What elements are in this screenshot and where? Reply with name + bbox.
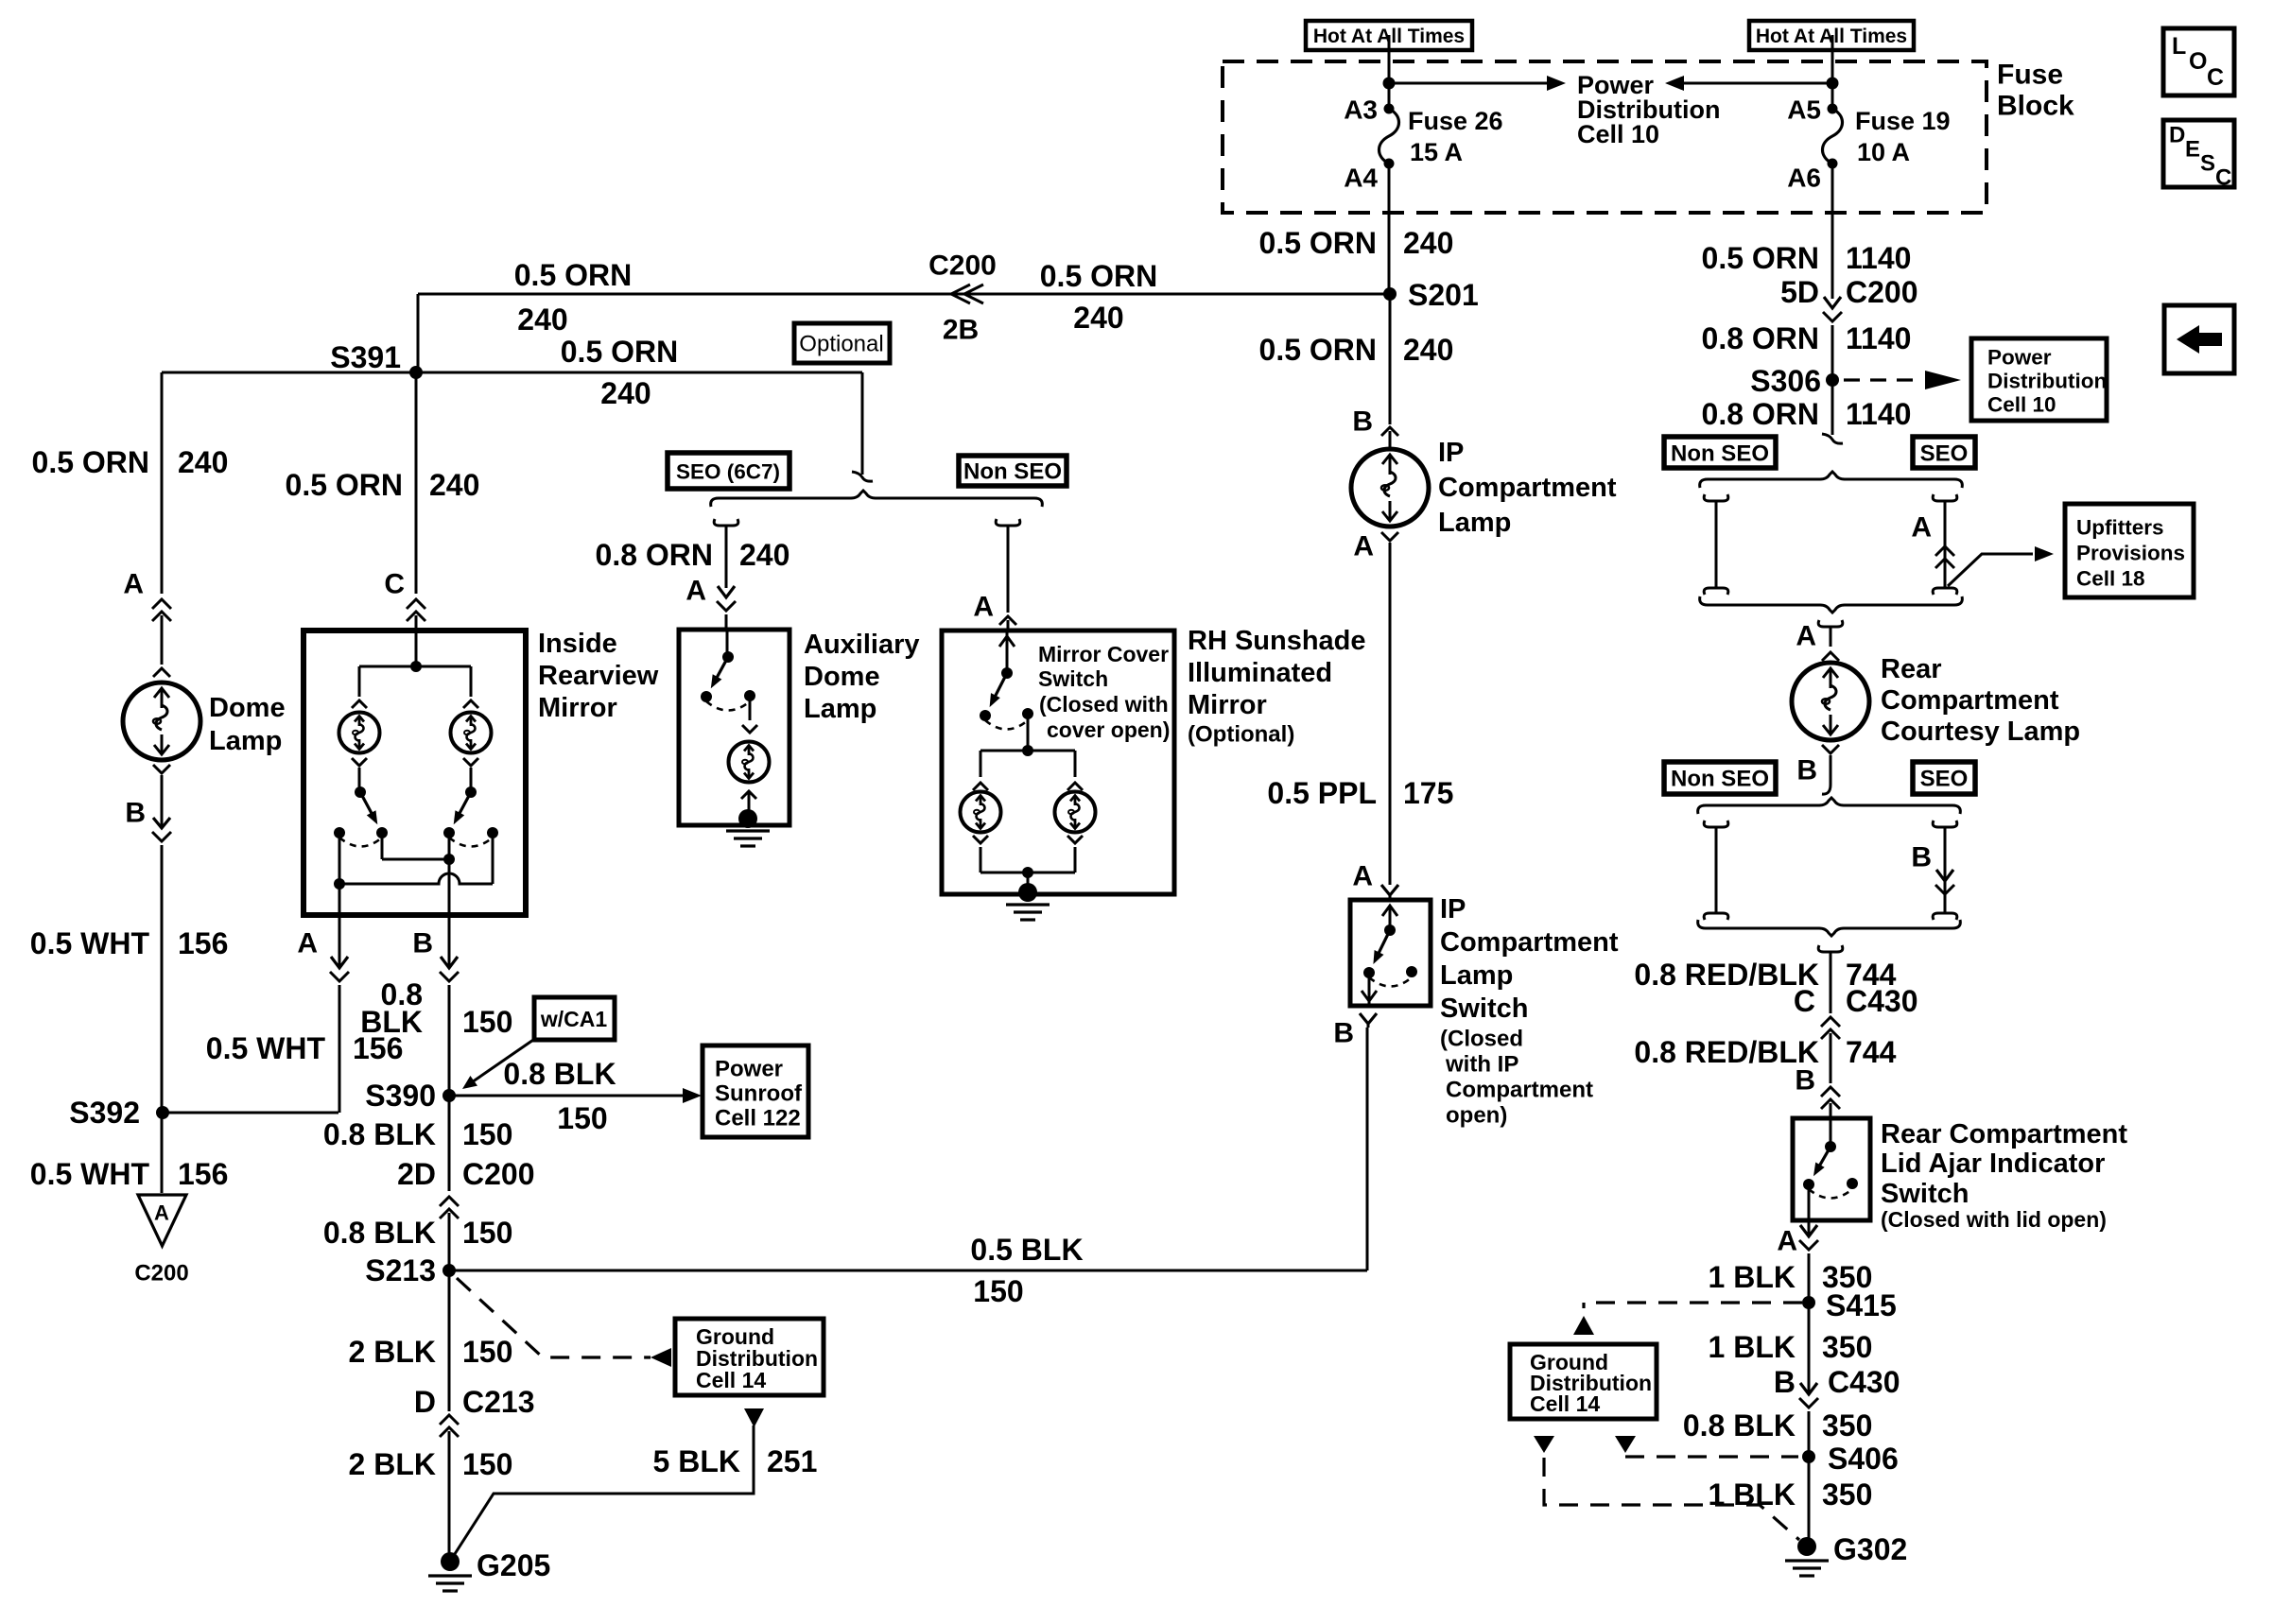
svg-text:0.8 BLK: 0.8 BLK bbox=[323, 1216, 436, 1250]
rear lid switch label bbox=[1881, 1119, 2127, 1232]
rear lid switch arm bbox=[1813, 1147, 1831, 1176]
svg-text:C200: C200 bbox=[134, 1261, 188, 1287]
dome lamp terminal B bbox=[125, 765, 170, 829]
svg-text:open): open) bbox=[1446, 1103, 1507, 1129]
dashed link S213 to ground distribution bbox=[457, 1278, 671, 1367]
svg-text:w/CA1: w/CA1 bbox=[540, 1007, 608, 1031]
rear courtesy lamp terminal A bbox=[1796, 620, 1842, 661]
wire 0.5 ORN 1140 from fuse 19 bbox=[1702, 164, 1912, 299]
svg-text:150: 150 bbox=[462, 1117, 512, 1151]
fuse block label bbox=[1997, 60, 2074, 122]
svg-text:B: B bbox=[1796, 755, 1817, 786]
svg-text:175: 175 bbox=[1403, 776, 1453, 810]
aux dome lamp bulb leg bbox=[742, 696, 757, 733]
mirror right switch arm bbox=[454, 792, 471, 824]
IP lamp switch feed arrow bbox=[1382, 906, 1397, 936]
wire 2 BLK 150 below S213 bbox=[349, 1274, 513, 1411]
svg-text:0.8 ORN: 0.8 ORN bbox=[1702, 397, 1819, 431]
svg-text:A: A bbox=[1352, 861, 1373, 892]
aux dome lamp bulb lower terminal bbox=[741, 791, 756, 817]
Power Sunroof Cell 122 box bbox=[703, 1045, 808, 1137]
svg-text:IP: IP bbox=[1438, 438, 1464, 468]
svg-text:0.5 WHT: 0.5 WHT bbox=[206, 1031, 326, 1065]
svg-text:Rear Compartment: Rear Compartment bbox=[1881, 1119, 2127, 1149]
rear lid switch terminal A bbox=[1777, 1220, 1818, 1299]
sunshade bulbs feed bus bbox=[980, 714, 1075, 756]
sunshade left bulb lower leg bbox=[973, 836, 988, 872]
svg-text:S392: S392 bbox=[69, 1096, 140, 1130]
connector C200 terminal A (triangle) bbox=[134, 1195, 188, 1287]
svg-text:0.5 ORN: 0.5 ORN bbox=[561, 335, 678, 369]
splice S391 bbox=[330, 340, 423, 379]
svg-text:A: A bbox=[685, 576, 706, 607]
mirror cover switch dashed throw bbox=[985, 720, 1028, 730]
svg-text:Courtesy Lamp: Courtesy Lamp bbox=[1881, 717, 2080, 747]
svg-text:Fuse 19: Fuse 19 bbox=[1855, 107, 1951, 135]
splice S213 bbox=[365, 1253, 456, 1287]
svg-text:SEO: SEO bbox=[1920, 441, 1969, 467]
svg-text:Mirror: Mirror bbox=[538, 693, 617, 723]
in-line connector on 0.5 WHT (below dome lamp) bbox=[152, 775, 171, 1111]
fuse 26 15A bbox=[1379, 107, 1503, 166]
mirror terminal B (below box) bbox=[412, 918, 459, 1092]
label 0.5 ORN 240 (right of C200) bbox=[1040, 259, 1157, 335]
rear courtesy lamp terminal B bbox=[1796, 745, 1839, 794]
svg-text:240: 240 bbox=[600, 376, 651, 410]
svg-text:0.5 ORN: 0.5 ORN bbox=[1259, 226, 1377, 260]
svg-text:C430: C430 bbox=[1846, 984, 1918, 1018]
Non SEO option wire to sunshade mirror bbox=[996, 519, 1020, 613]
auxiliary dome lamp box bbox=[679, 630, 789, 825]
aux dome lamp switch contacts bbox=[701, 690, 755, 702]
wire optional branch down from S391 run bbox=[852, 372, 873, 481]
wire 0.5 ORN 240 from fuse 26 to S201 bbox=[1259, 164, 1454, 294]
label 0.5 WHT 156 (S392 to mirror A) bbox=[206, 1031, 404, 1065]
svg-text:S: S bbox=[2200, 151, 2215, 177]
IP lamp switch dashed throw bbox=[1369, 977, 1412, 987]
svg-text:0.5 ORN: 0.5 ORN bbox=[1702, 241, 1819, 275]
connector C200 2D bbox=[397, 1157, 534, 1267]
sunshade ground bus bbox=[980, 867, 1075, 890]
RH sunshade illuminated mirror box bbox=[942, 631, 1174, 894]
svg-text:2D: 2D bbox=[397, 1157, 436, 1191]
svg-text:Upfitters: Upfitters bbox=[2076, 516, 2164, 540]
rear lid switch terminal B bbox=[1795, 1065, 1840, 1119]
DESC legend box bbox=[2163, 120, 2234, 191]
LOC legend box bbox=[2163, 28, 2234, 95]
wire 0.8 BLK 150 from S390 to power sunroof bbox=[449, 1057, 702, 1135]
svg-text:150: 150 bbox=[462, 1447, 512, 1481]
splice S406 bbox=[1802, 1442, 1899, 1476]
wire 0.8 BLK 150 below S390 bbox=[323, 1096, 513, 1191]
svg-text:0.5 BLK: 0.5 BLK bbox=[970, 1233, 1083, 1267]
wire 0.5 ORN 240 from S201 to IP compartment lamp bbox=[1259, 294, 1454, 424]
fuse F26 terminal A3 bbox=[1344, 95, 1394, 125]
rear lid switch feed bbox=[1825, 1118, 1836, 1152]
IP compartment lamp switch box bbox=[1350, 900, 1431, 1006]
svg-text:S391: S391 bbox=[330, 340, 401, 374]
Upfitters Provisions Cell 18 box bbox=[2065, 504, 2194, 597]
svg-text:Compartment: Compartment bbox=[1440, 927, 1619, 958]
IP lamp switch condition label bbox=[1440, 1027, 1593, 1129]
svg-text:1 BLK: 1 BLK bbox=[1709, 1260, 1796, 1294]
mirror internal wire left-inner contact to node bbox=[382, 833, 455, 865]
svg-text:2 BLK: 2 BLK bbox=[349, 1447, 436, 1481]
svg-text:RH Sunshade: RH Sunshade bbox=[1188, 626, 1366, 656]
option brace (SEO 6C7 / Non SEO) bbox=[711, 491, 1043, 507]
svg-text:240: 240 bbox=[1403, 226, 1453, 260]
inside rearview mirror label bbox=[538, 629, 659, 723]
option brace lower (open) bbox=[1698, 798, 1961, 814]
mirror switch dashed throw (right) bbox=[449, 838, 493, 847]
Hot At All Times box (left) bbox=[1306, 21, 1472, 50]
svg-text:A5: A5 bbox=[1787, 95, 1821, 125]
aux dome lamp switch arm bbox=[711, 657, 728, 688]
svg-text:S390: S390 bbox=[365, 1079, 436, 1113]
node on fuse feed (left) bbox=[1383, 78, 1396, 90]
svg-text:0.5 ORN: 0.5 ORN bbox=[32, 445, 149, 479]
svg-text:0.8 RED/BLK: 0.8 RED/BLK bbox=[1634, 958, 1819, 992]
Non SEO flag box (center) bbox=[959, 456, 1067, 486]
dashed link S415 to ground distribution bbox=[1573, 1303, 1802, 1335]
svg-text:240: 240 bbox=[178, 445, 228, 479]
svg-text:1140: 1140 bbox=[1846, 397, 1911, 431]
IP lamp switch terminal A bbox=[1352, 861, 1398, 901]
arrow to Power Distribution Cell 10 (from left feed) bbox=[1389, 76, 1566, 91]
svg-text:Rearview: Rearview bbox=[538, 661, 659, 691]
svg-text:A: A bbox=[154, 1201, 169, 1225]
svg-text:0.8 ORN: 0.8 ORN bbox=[1702, 321, 1819, 355]
svg-text:Switch: Switch bbox=[1440, 993, 1528, 1024]
wire 1 BLK 350 S406 to G302 bbox=[1709, 1460, 1873, 1539]
svg-text:C: C bbox=[2215, 165, 2231, 191]
option brace upper (open) bbox=[1700, 472, 1963, 488]
wire 0.5 ORN 240 from S391 to inside rearview mirror bbox=[286, 372, 480, 594]
connector C200 5D bbox=[1780, 275, 1917, 376]
arrow to Power Distribution Cell 10 (from right feed) bbox=[1665, 76, 1832, 91]
IP compartment lamp bbox=[1351, 438, 1617, 538]
svg-text:E: E bbox=[2185, 137, 2200, 163]
RH sunshade mirror label bbox=[1188, 626, 1366, 748]
SEO (6C7) flag box bbox=[668, 453, 789, 489]
svg-text:A: A bbox=[297, 928, 318, 959]
wire 0.5 ORN 240 from S391 left to dome lamp branch bbox=[162, 371, 416, 374]
Power Distribution Cell 10 box bbox=[1971, 338, 2107, 421]
wire 0.5 ORN 240 from S391 right to Optional branch bbox=[416, 335, 862, 410]
mirror internal feed bus bbox=[359, 631, 471, 672]
sunshade left bulb leg bbox=[973, 751, 988, 790]
Hot At All Times box (right) bbox=[1749, 21, 1914, 50]
svg-text:156: 156 bbox=[178, 1157, 228, 1191]
wire 0.5 ORN 240 dome lamp feed bbox=[32, 372, 229, 594]
svg-text:350: 350 bbox=[1822, 1330, 1872, 1364]
svg-text:0.8 BLK: 0.8 BLK bbox=[1683, 1408, 1796, 1443]
mirror right switch pivot bbox=[465, 768, 477, 798]
svg-text:Mirror Cover: Mirror Cover bbox=[1038, 642, 1169, 666]
svg-text:0.5 PPL: 0.5 PPL bbox=[1267, 776, 1377, 810]
svg-text:S201: S201 bbox=[1408, 278, 1479, 312]
svg-text:(Closed: (Closed bbox=[1440, 1027, 1523, 1052]
svg-text:0.8 RED/BLK: 0.8 RED/BLK bbox=[1634, 1035, 1819, 1069]
svg-text:240: 240 bbox=[1403, 333, 1453, 367]
svg-text:240: 240 bbox=[517, 302, 567, 337]
svg-text:IP: IP bbox=[1440, 894, 1466, 924]
svg-text:A: A bbox=[1353, 531, 1374, 562]
aux dome lamp switch feed bbox=[722, 630, 734, 663]
mirror cover switch label bbox=[1038, 642, 1170, 742]
svg-text:Non SEO: Non SEO bbox=[1671, 767, 1769, 792]
svg-text:1140: 1140 bbox=[1846, 321, 1911, 355]
svg-text:Auxiliary: Auxiliary bbox=[804, 630, 920, 660]
label 0.5 PPL 175 bbox=[1267, 776, 1453, 810]
mirror cover switch contacts bbox=[980, 708, 1033, 721]
svg-text:C: C bbox=[1794, 984, 1815, 1018]
svg-text:150: 150 bbox=[557, 1101, 607, 1135]
rear lid switch output leg bbox=[1808, 1184, 1811, 1220]
IP compartment lamp terminal B bbox=[1352, 406, 1398, 451]
svg-text:S406: S406 bbox=[1828, 1442, 1899, 1476]
svg-text:Cell 18: Cell 18 bbox=[2076, 567, 2145, 591]
Ground Distribution Cell 14 box (left) bbox=[675, 1319, 824, 1395]
svg-text:0.5 ORN: 0.5 ORN bbox=[286, 468, 403, 502]
svg-text:Lamp: Lamp bbox=[1438, 508, 1511, 538]
svg-text:251: 251 bbox=[767, 1444, 817, 1478]
aux dome lamp switch dashed throw bbox=[706, 701, 750, 711]
svg-text:Mirror: Mirror bbox=[1188, 690, 1267, 720]
wire 0.8 RED/BLK 744 to connector C430 bbox=[1634, 945, 1896, 1013]
Non SEO flag box (upper right) bbox=[1664, 437, 1776, 468]
svg-text:C: C bbox=[384, 569, 405, 600]
svg-text:0.5 ORN: 0.5 ORN bbox=[1259, 333, 1377, 367]
sunshade right bulb lower leg bbox=[1067, 836, 1083, 872]
svg-text:0.8 BLK: 0.8 BLK bbox=[503, 1057, 616, 1091]
svg-text:Cell 122: Cell 122 bbox=[715, 1106, 801, 1132]
sunshade right bulb leg bbox=[1067, 751, 1083, 790]
SEO option wire with terminal A bbox=[1911, 494, 1956, 595]
svg-text:S213: S213 bbox=[365, 1253, 436, 1287]
svg-text:150: 150 bbox=[462, 1335, 512, 1369]
svg-text:B: B bbox=[1911, 842, 1932, 873]
svg-text:2 BLK: 2 BLK bbox=[349, 1335, 436, 1369]
fuse F26 terminal A4 bbox=[1344, 159, 1394, 193]
mirror terminal A (below box) bbox=[297, 918, 349, 1113]
svg-text:Fuse 26: Fuse 26 bbox=[1408, 107, 1503, 135]
Non SEO flag box (lower right) bbox=[1664, 762, 1776, 794]
label 0.8 BLK 350 (above S406) bbox=[1683, 1408, 1873, 1443]
SEO flag box (upper right) bbox=[1913, 437, 1975, 468]
label 2 BLK 150 (above G205) bbox=[349, 1447, 513, 1481]
svg-text:5D: 5D bbox=[1780, 275, 1819, 309]
wire 5 BLK 251 from G205 to ground distribution bbox=[453, 1408, 817, 1557]
connector C430 terminal C bbox=[1794, 984, 1918, 1083]
svg-text:240: 240 bbox=[1073, 301, 1123, 335]
svg-text:L: L bbox=[2172, 33, 2186, 60]
IP compartment lamp terminal A bbox=[1353, 531, 1398, 886]
svg-text:Compartment: Compartment bbox=[1446, 1078, 1593, 1103]
svg-text:Non SEO: Non SEO bbox=[1671, 441, 1769, 467]
svg-text:Cell 10: Cell 10 bbox=[1987, 393, 2056, 417]
mirror left switch pivot bbox=[355, 768, 366, 798]
mirror cover switch feed arrow bbox=[999, 631, 1015, 679]
svg-text:150: 150 bbox=[462, 1005, 512, 1039]
splice S415 bbox=[1802, 1288, 1897, 1322]
svg-text:Lamp: Lamp bbox=[804, 694, 876, 724]
ground G302 bbox=[1785, 1532, 1907, 1576]
option brace upper (close) bbox=[1700, 596, 1963, 613]
svg-text:C430: C430 bbox=[1828, 1365, 1900, 1399]
svg-text:BLK: BLK bbox=[360, 1005, 423, 1039]
svg-text:B: B bbox=[1333, 1018, 1354, 1049]
sunshade internal ground bbox=[1006, 883, 1050, 920]
connector C213 terminal D bbox=[414, 1385, 535, 1555]
label 0.8 RED/BLK 744 (below C430) bbox=[1634, 1035, 1896, 1069]
mirror internal wire to left bulb bbox=[358, 666, 361, 697]
option brace lower (close) bbox=[1698, 920, 1961, 936]
svg-text:Lid Ajar Indicator: Lid Ajar Indicator bbox=[1881, 1149, 2105, 1179]
wire corner down to S391 bbox=[417, 294, 420, 372]
svg-text:Dome: Dome bbox=[209, 693, 286, 723]
svg-text:(Closed with lid open): (Closed with lid open) bbox=[1881, 1207, 2107, 1232]
svg-text:0.5 WHT: 0.5 WHT bbox=[30, 926, 150, 960]
wire from right Hot At All Times into fuse block bbox=[1831, 35, 1834, 106]
mirror internal crossover wire with jump bbox=[334, 833, 493, 890]
svg-text:C200: C200 bbox=[1846, 275, 1918, 309]
svg-text:A: A bbox=[1911, 512, 1932, 544]
splice S390 bbox=[365, 1079, 456, 1113]
mirror right bulb bbox=[451, 700, 492, 766]
fuse F19 terminal A5 bbox=[1787, 95, 1837, 125]
mirror internal wire to right bulb bbox=[470, 666, 473, 697]
svg-text:150: 150 bbox=[462, 1216, 512, 1250]
arrow to Upfitters Provisions Cell 18 bbox=[1948, 546, 2054, 586]
svg-text:0.8 ORN: 0.8 ORN bbox=[596, 538, 713, 572]
Ground Distribution Cell 14 box (right) bbox=[1510, 1344, 1657, 1419]
mirror switch contacts bbox=[334, 827, 498, 838]
svg-text:Sunroof: Sunroof bbox=[715, 1081, 803, 1107]
svg-text:744: 744 bbox=[1846, 1035, 1897, 1069]
svg-text:S306: S306 bbox=[1750, 364, 1821, 398]
svg-text:with IP: with IP bbox=[1445, 1052, 1518, 1078]
sunshade mirror terminal A bbox=[973, 592, 1016, 631]
svg-text:Switch: Switch bbox=[1881, 1179, 1969, 1209]
svg-text:Block: Block bbox=[1997, 91, 2074, 122]
IP lamp switch output leg bbox=[1362, 973, 1377, 1004]
svg-text:B: B bbox=[1352, 406, 1373, 438]
Non SEO option bracket (blank) bbox=[1704, 494, 1728, 595]
fuse F19 terminal A6 bbox=[1787, 159, 1837, 193]
svg-text:G205: G205 bbox=[477, 1548, 550, 1582]
splice S201 bbox=[1383, 278, 1479, 312]
svg-text:350: 350 bbox=[1822, 1477, 1872, 1512]
sunshade right bulb bbox=[1055, 792, 1096, 833]
svg-text:Distribution: Distribution bbox=[1987, 370, 2107, 393]
fuse 19 10A bbox=[1823, 107, 1951, 166]
svg-text:B: B bbox=[412, 928, 433, 959]
svg-text:150: 150 bbox=[973, 1274, 1023, 1308]
back-arrow legend box bbox=[2164, 305, 2234, 373]
w/CA1 flag box bbox=[534, 997, 615, 1040]
svg-text:Optional: Optional bbox=[799, 332, 883, 357]
wire 0.5 BLK 150 from S213 to IP compartment lamp switch bbox=[449, 1028, 1367, 1308]
mirror internal wire right-inner contact down (B leg) bbox=[448, 833, 451, 915]
wire S392 to mirror terminal A leg bbox=[163, 1112, 338, 1114]
svg-text:A: A bbox=[1796, 621, 1816, 652]
svg-text:Power: Power bbox=[715, 1057, 783, 1082]
svg-text:Rear: Rear bbox=[1881, 654, 1942, 684]
svg-text:Power: Power bbox=[1987, 346, 2052, 370]
svg-text:Illuminated: Illuminated bbox=[1188, 658, 1332, 688]
svg-text:Switch: Switch bbox=[1038, 666, 1108, 691]
label 0.5 WHT 156 (above S392) bbox=[30, 926, 229, 960]
aux dome lamp internal ground bbox=[726, 809, 770, 846]
mirror left bulb bbox=[339, 700, 380, 766]
svg-text:0.5 ORN: 0.5 ORN bbox=[514, 258, 632, 292]
wire 0.5 WHT 156 below S392 to C200 bbox=[30, 1113, 229, 1193]
svg-text:(Optional): (Optional) bbox=[1188, 722, 1294, 748]
svg-text:A4: A4 bbox=[1344, 164, 1378, 193]
svg-text:A: A bbox=[1777, 1226, 1797, 1257]
svg-text:Compartment: Compartment bbox=[1881, 685, 2059, 716]
svg-text:5 BLK: 5 BLK bbox=[653, 1444, 740, 1478]
rear compartment courtesy lamp bbox=[1792, 654, 2080, 747]
svg-text:Non SEO: Non SEO bbox=[963, 459, 1062, 485]
svg-text:Compartment: Compartment bbox=[1438, 473, 1617, 503]
svg-text:A: A bbox=[973, 592, 994, 623]
svg-text:0.8 BLK: 0.8 BLK bbox=[323, 1117, 436, 1151]
wire 0.8 ORN 1140 below S306 bbox=[1702, 380, 1912, 443]
Non SEO option bracket lower (blank) bbox=[1704, 821, 1728, 920]
IP lamp switch arm bbox=[1373, 930, 1390, 964]
svg-text:1 BLK: 1 BLK bbox=[1709, 1330, 1796, 1364]
splice S392 bbox=[69, 1096, 169, 1130]
connector C200 2B (in-line chevrons) bbox=[928, 251, 997, 346]
ground distribution dashed leg to G302 bbox=[1534, 1436, 1799, 1540]
wire 1 BLK 350 S415 to C430 bbox=[1709, 1330, 1873, 1364]
rear compartment lid ajar indicator switch box bbox=[1793, 1118, 1870, 1220]
svg-text:10 A: 10 A bbox=[1857, 138, 1910, 166]
svg-text:B: B bbox=[1774, 1365, 1796, 1399]
svg-text:SEO: SEO bbox=[1920, 767, 1969, 792]
arrow from w/CA1 to S390 bbox=[462, 1038, 536, 1089]
wire 0.5 ORN 240 from S201 to C200 (top run) bbox=[418, 258, 1390, 337]
svg-text:Cell 10: Cell 10 bbox=[1577, 120, 1659, 148]
node on fuse feed (right) bbox=[1827, 78, 1839, 90]
inside rearview mirror box bbox=[304, 631, 526, 915]
mirror switch dashed throw (left) bbox=[339, 838, 382, 847]
IP lamp switch terminal B bbox=[1333, 1013, 1377, 1049]
SEO flag box (lower right) bbox=[1913, 762, 1975, 794]
fuse block (dashed outline) bbox=[1223, 61, 1987, 213]
aux dome lamp bulb bbox=[729, 742, 770, 783]
mirror internal A leg bbox=[338, 884, 341, 915]
IP compartment lamp switch label bbox=[1440, 894, 1619, 1024]
connector C430 terminal B bbox=[1774, 1306, 1900, 1453]
svg-text:240: 240 bbox=[429, 468, 479, 502]
auxiliary dome lamp terminal A bbox=[685, 576, 736, 631]
svg-text:15 A: 15 A bbox=[1410, 138, 1463, 166]
svg-text:B: B bbox=[1795, 1065, 1815, 1097]
svg-text:Fuse: Fuse bbox=[1997, 60, 2063, 91]
svg-text:0.5 WHT: 0.5 WHT bbox=[30, 1157, 150, 1191]
svg-text:1140: 1140 bbox=[1846, 241, 1911, 275]
svg-text:240: 240 bbox=[739, 538, 789, 572]
svg-text:2B: 2B bbox=[943, 315, 979, 346]
svg-text:Inside: Inside bbox=[538, 629, 617, 659]
sunshade left bulb bbox=[961, 792, 1001, 833]
label 0.8 BLK 150 (above S213) bbox=[323, 1216, 513, 1250]
ground G205 bbox=[428, 1548, 550, 1591]
svg-text:S415: S415 bbox=[1826, 1288, 1897, 1322]
